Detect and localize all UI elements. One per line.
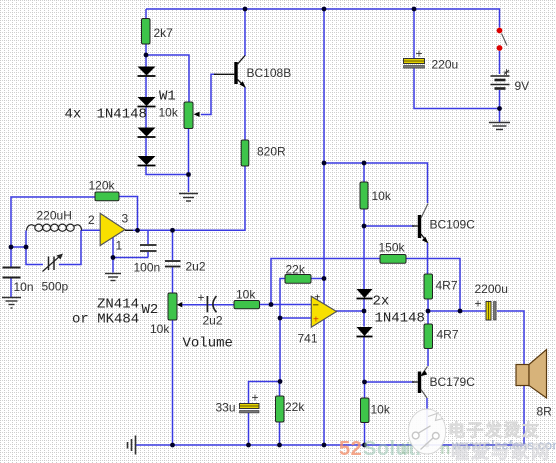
wire 33u branch (249, 382, 281, 404)
resistor 4R7 lower (424, 324, 433, 349)
wire BC109C emitter down to 4R7 (427, 243, 429, 274)
svg-text:+: + (416, 47, 423, 61)
potentiometer W1 10k body (184, 102, 193, 129)
wire 10k to op-amp inverting input (260, 304, 312, 306)
wire plus node down to 33u/22k (279, 318, 281, 382)
wire 33u bottom to rail (248, 413, 250, 445)
resistor 10k bottom (361, 398, 370, 423)
capacitor 220u electrolytic (404, 59, 425, 64)
resistor 2k7 (142, 19, 151, 45)
wire output node to 2200u (428, 310, 486, 312)
wire BC109C base (364, 225, 414, 227)
wire pin1 node to 100n bottom (113, 257, 148, 259)
svg-text:2200u: 2200u (475, 282, 508, 296)
transistor BC109C (412, 204, 428, 244)
svg-text:10n: 10n (14, 280, 34, 294)
resistor 120k (95, 192, 119, 201)
svg-text:4R7: 4R7 (437, 328, 459, 342)
svg-text:+: + (475, 297, 482, 311)
svg-text:2x: 2x (373, 294, 390, 310)
svg-text:9V: 9V (515, 79, 530, 93)
wire base node down to diode D5 (363, 226, 365, 289)
wire BC179C collector to bottom rail (426, 398, 428, 445)
svg-text:ti: ti (400, 439, 410, 458)
wire switch to battery (499, 51, 501, 74)
wire tank node up to coil (25, 231, 27, 248)
wire plus input (280, 317, 311, 319)
wire 10k mid top stub (363, 163, 365, 182)
svg-text:220uH: 220uH (37, 209, 72, 223)
svg-text:+: + (198, 291, 205, 305)
svg-text:Volume: Volume (183, 336, 233, 352)
svg-text:−: − (313, 300, 319, 312)
capacitor 2u2 series polarized (206, 296, 208, 312)
wire 2k7 top stub (145, 9, 147, 19)
svg-text:BC109C: BC109C (430, 218, 476, 232)
wire bottom 10k to bottom rail (364, 423, 366, 446)
resistor 10k series (234, 301, 260, 309)
diode D3 1N4148 (138, 128, 156, 137)
wire 22k top right end to x324 rail (311, 278, 324, 280)
wire x324 vertical rail (323, 9, 325, 445)
wire diode D3-D4 (145, 138, 147, 157)
svg-text:741: 741 (298, 332, 318, 346)
svg-text:10k: 10k (159, 106, 179, 120)
wire 10k mid bottom to base node (363, 209, 365, 226)
wire W2 wiper to 2u2 series cap and 10k (182, 304, 235, 306)
svg-text:10k: 10k (372, 189, 392, 203)
svg-text:1: 1 (116, 239, 123, 253)
wire coil right to ZN414 pin2 (81, 229, 101, 231)
svg-text:or MK484: or MK484 (72, 312, 139, 328)
wire W1 bottom (188, 128, 190, 175)
capacitor 100n (140, 245, 157, 251)
wire D5 bottom to output mid node (363, 299, 365, 311)
svg-text:BC179C: BC179C (430, 375, 476, 389)
capacitor 2u2 shunt (165, 261, 181, 267)
wire 100n bottom stub (147, 252, 149, 258)
speaker 8R (516, 365, 529, 386)
wire tank node down to 500p branch (26, 247, 43, 265)
svg-text:2u2: 2u2 (203, 314, 223, 328)
wire 100n top stub (147, 230, 149, 244)
wire junction below 2k7 to W1 top (146, 55, 189, 102)
battery 9V (491, 76, 510, 89)
svg-text:W2: W2 (142, 302, 159, 318)
potentiometer W1 wiper arrow (194, 112, 200, 117)
wire 150k right to output node (406, 259, 460, 312)
wire y163 branch to BC109C collector (324, 163, 428, 203)
svg-text:1N4148: 1N4148 (97, 107, 147, 123)
potentiometer W2 10k body (168, 293, 177, 320)
diode D5 1N4148 (357, 289, 373, 298)
diode D1 1N4148 (138, 67, 156, 76)
ground W1 (179, 194, 198, 202)
wire 220u top stub (413, 9, 415, 58)
ground bottom rail sideways (128, 436, 136, 455)
wire speaker bottom to rail (523, 386, 525, 446)
wire BC108B collector to top rail (244, 9, 246, 56)
svg-text:喔爱与家网: 喔爱与家网 (451, 441, 551, 462)
svg-text:+: + (252, 391, 259, 405)
svg-text:2k7: 2k7 (154, 26, 174, 40)
potentiometer W2 wiper arrow (177, 302, 183, 307)
wire left rail top (11, 197, 95, 267)
wire 500p right to coil right (59, 230, 81, 264)
svg-text:10k: 10k (150, 322, 170, 336)
wire diode mid node down to D6 (363, 311, 365, 327)
wire inverting node up to 150k feedback (271, 259, 380, 305)
transistor BC179C (412, 367, 428, 399)
svg-text:4R7: 4R7 (436, 279, 458, 293)
capacitor 500p variable (49, 257, 55, 271)
wire 10n bottom to ground (10, 279, 12, 298)
svg-text:电子发烫友: 电子发烫友 (448, 420, 541, 440)
op-amp U2 741 (311, 296, 336, 327)
svg-text:2u2: 2u2 (186, 260, 206, 274)
wire W2 bottom to bottom rail (172, 320, 174, 445)
watermark white circle logo (408, 409, 445, 454)
wire battery bottom (499, 90, 501, 109)
capacitor 2200u electrolytic (486, 302, 491, 321)
capacitor 10n (3, 268, 21, 278)
wire diode chain bottom to W1 bottom junction (146, 167, 189, 175)
svg-text:820R: 820R (257, 145, 286, 159)
svg-text:4x: 4x (65, 107, 82, 123)
wire 2u2 shunt top stub (172, 230, 174, 260)
wire between 4R7s through output node (427, 299, 429, 324)
wire 820R bottom to ZN414 output rail (126, 166, 245, 230)
svg-text:52: 52 (339, 438, 362, 460)
wire W1 ground stem (188, 175, 190, 193)
wire bottom rail (136, 444, 524, 446)
wire lower 4R7 bottom to BC179C emitter (427, 349, 429, 367)
resistor 150k (380, 255, 406, 264)
svg-text:33u: 33u (216, 401, 236, 415)
svg-text:W1: W1 (159, 89, 176, 105)
svg-text:3: 3 (122, 212, 129, 226)
capacitor 33u electrolytic (240, 404, 260, 409)
svg-text:150k: 150k (379, 241, 406, 255)
wire 22k bottom top stub (279, 382, 281, 397)
resistor 10k mid (360, 182, 368, 209)
svg-text:+: + (313, 315, 319, 326)
svg-text:120k: 120k (89, 179, 116, 193)
svg-text:8R: 8R (537, 405, 553, 419)
wire diode D2-D3 (145, 108, 147, 129)
svg-text:1N4148: 1N4148 (375, 311, 425, 327)
diode D2 1N4148 (138, 97, 156, 106)
op-amp IC ZN414 (100, 213, 125, 245)
wire 220u bottom to battery minus (414, 69, 500, 109)
svg-text:10k: 10k (371, 403, 391, 417)
svg-text:BC108B: BC108B (247, 66, 292, 80)
svg-text:22k: 22k (285, 400, 305, 414)
wire pin1 ground stem (112, 258, 114, 273)
resistor 4R7 upper (424, 274, 433, 299)
wire 120k right end down to output rail (119, 197, 138, 231)
svg-text:2: 2 (88, 213, 95, 227)
wire 2200u to speaker (497, 311, 524, 365)
wire BC179C base (364, 381, 414, 383)
svg-text:22k: 22k (286, 263, 306, 277)
resistor 22k bottom (276, 396, 285, 422)
wire 22k bottom to rail (279, 422, 281, 445)
resistor 22k top (285, 275, 311, 284)
wire top positive rail (146, 9, 500, 28)
wire 22k top left end to plus input (280, 279, 285, 319)
transistor BC108B (214, 56, 246, 88)
wire W1 wiper to BC108B base (201, 74, 217, 114)
diode D4 1N4148 (138, 156, 156, 165)
ground ZN414 pin1 (105, 274, 121, 281)
inductor 220uH coil (27, 224, 82, 231)
switch S1 (497, 28, 503, 34)
wire base node down to bottom 10k (364, 382, 366, 398)
ground tank circuit (2, 298, 21, 309)
svg-text:ZN414: ZN414 (97, 297, 139, 313)
resistor 820R (241, 140, 249, 166)
wire ZN414 pin1 down (112, 237, 114, 258)
svg-text:220u: 220u (432, 58, 459, 72)
svg-text:500p: 500p (42, 280, 69, 294)
wire BC108B emitter to 820R (244, 87, 246, 140)
wire D6 bottom down to BC179C base node (363, 337, 365, 383)
wire diode D1-D2 (145, 77, 147, 98)
diode D6 1N4148 (357, 327, 373, 336)
svg-text:100n: 100n (134, 261, 161, 275)
wire battery ground stem (499, 109, 501, 123)
wire op-amp output to diode mid node (336, 310, 364, 312)
wire tank left junction (11, 246, 26, 248)
svg-text:10k: 10k (236, 288, 256, 302)
wire 2k7 bottom to diode chain (145, 44, 147, 67)
ground battery (489, 123, 510, 130)
wire 2u2 shunt bottom to W2 top (172, 268, 174, 294)
